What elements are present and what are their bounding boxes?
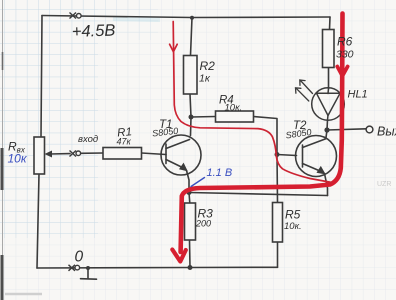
wire R3 bottom lead	[189, 240, 192, 268]
HL1 emission arrows	[296, 80, 313, 101]
wire R1 to T1 base	[142, 153, 167, 155]
svg-text:HL1: HL1	[348, 89, 368, 101]
red thin arrowhead (at R2)	[170, 44, 178, 52]
svg-text:1к: 1к	[199, 73, 211, 85]
terminal 0 (x-o)	[69, 265, 80, 271]
red arrowhead bottom (at R3)	[172, 250, 186, 262]
wire bottom rail	[37, 266, 278, 269]
junction node T1 emitter / R3	[187, 190, 192, 195]
terminal output circle	[366, 126, 373, 133]
junction node ground rail	[86, 266, 90, 270]
terminal +4.5V (x-o)	[70, 13, 82, 19]
wire R6 bottom lead	[328, 68, 330, 89]
junction node T2 base / R4 / R5	[275, 152, 280, 157]
resistor R2	[184, 56, 198, 95]
red current path thin (base branch)	[173, 22, 332, 183]
wire left rail upper	[41, 16, 42, 138]
junction node R3 bottom rail	[188, 265, 193, 270]
svg-text:10к: 10к	[8, 152, 28, 166]
resistor R4	[216, 111, 254, 122]
svg-text:330: 330	[336, 49, 354, 61]
potentiometer wiper arrow	[45, 151, 53, 158]
svg-text:1.1 В: 1.1 В	[207, 167, 233, 179]
svg-text:+4.5В: +4.5В	[72, 21, 116, 41]
transistor T2	[296, 136, 337, 177]
cyan highlighter smudge on top rail	[113, 19, 160, 20]
junction node at R2 top	[190, 16, 194, 20]
svg-text:0: 0	[75, 249, 84, 266]
wire R5 bottom lead	[277, 242, 279, 267]
resistor R1	[103, 148, 142, 160]
wire T1 emitter lead	[187, 171, 190, 193]
wire T2 emitter lead	[325, 174, 328, 196]
wire T2 collector lead	[326, 130, 327, 138]
wire T1 collector lead	[190, 117, 193, 136]
junction node HL1 / T2 collector / output	[324, 127, 329, 132]
potentiometer Rvx body	[34, 137, 45, 174]
wire HL1 bottom lead	[326, 120, 329, 130]
wire pot bottom lead	[37, 174, 39, 268]
blue annotation 1.1 V tick	[191, 178, 205, 187]
red current path thick (LED branch down to emitter rail)	[181, 14, 343, 253]
terminal input (x-o)	[70, 151, 81, 157]
wire pot wiper to input terminal	[50, 153, 70, 155]
wire T2 base lead	[277, 155, 297, 156]
wire input terminal to R1	[81, 152, 104, 154]
scan edge artifact left	[2, 0, 42, 300]
svg-text:Вых: Вых	[377, 125, 396, 139]
svg-text:200: 200	[195, 219, 211, 229]
wire emitter rail	[189, 193, 328, 196]
svg-text:UZR: UZR	[377, 181, 391, 188]
LED HL1	[312, 88, 345, 121]
wire R4 right lead to node	[254, 117, 278, 155]
wire R6 top lead	[329, 17, 332, 30]
svg-text:R2: R2	[200, 59, 216, 73]
wire R5 top lead	[276, 155, 279, 203]
resistor R6	[323, 30, 335, 68]
junction node T1 collector / R4	[189, 115, 194, 120]
wire R4 left lead	[191, 116, 216, 119]
transistor T1	[161, 135, 201, 175]
ground symbol	[81, 268, 97, 279]
wire R2 bottom lead	[190, 94, 191, 117]
svg-text:47к: 47к	[117, 137, 132, 147]
resistor R3	[185, 203, 196, 240]
svg-text:R6: R6	[337, 35, 353, 49]
svg-text:10к.: 10к.	[225, 103, 243, 114]
red arrowhead mid (at HL1)	[337, 67, 347, 77]
svg-text:вход: вход	[78, 134, 98, 145]
svg-text:R5: R5	[285, 208, 301, 222]
wire R3 top lead	[188, 193, 191, 204]
wire R2 top lead	[191, 18, 193, 56]
wire top rail	[42, 16, 330, 18]
wire output lead	[327, 129, 366, 130]
svg-text:10к.: 10к.	[284, 221, 302, 232]
resistor R5	[273, 203, 283, 243]
